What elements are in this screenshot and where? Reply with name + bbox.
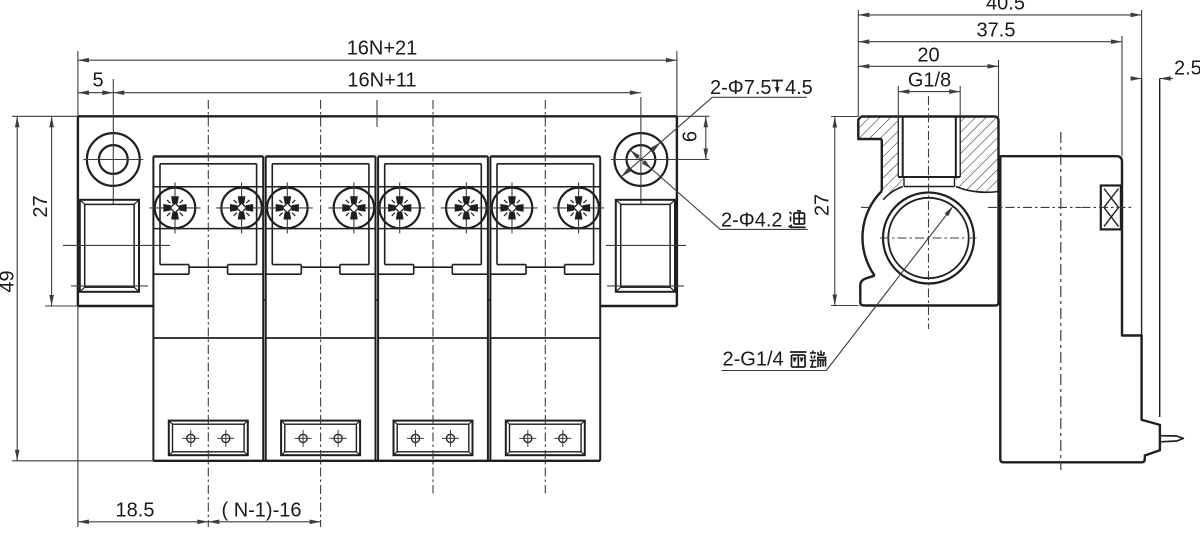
svg-text:2-Φ7.5: 2-Φ7.5 xyxy=(710,77,772,99)
svg-text:27: 27 xyxy=(812,194,834,216)
svg-text:40.5: 40.5 xyxy=(986,0,1025,15)
svg-text:18.5: 18.5 xyxy=(116,500,155,522)
svg-text:16N+21: 16N+21 xyxy=(347,38,418,60)
svg-text:6: 6 xyxy=(680,131,702,142)
svg-text:49: 49 xyxy=(0,270,19,292)
svg-text:5: 5 xyxy=(92,70,103,92)
svg-text:16N+11: 16N+11 xyxy=(347,70,416,92)
svg-text:4.5: 4.5 xyxy=(785,77,813,99)
svg-text:27: 27 xyxy=(30,195,52,217)
svg-text:37.5: 37.5 xyxy=(977,20,1016,42)
svg-text:2-G1/4: 2-G1/4 xyxy=(723,349,784,371)
svg-text:G1/8: G1/8 xyxy=(908,70,951,92)
svg-text:2.5: 2.5 xyxy=(1174,58,1200,80)
svg-text:2-Φ4.2: 2-Φ4.2 xyxy=(721,210,783,232)
svg-text:20: 20 xyxy=(917,44,939,66)
svg-text:( N-1)-16: ( N-1)-16 xyxy=(221,500,301,522)
